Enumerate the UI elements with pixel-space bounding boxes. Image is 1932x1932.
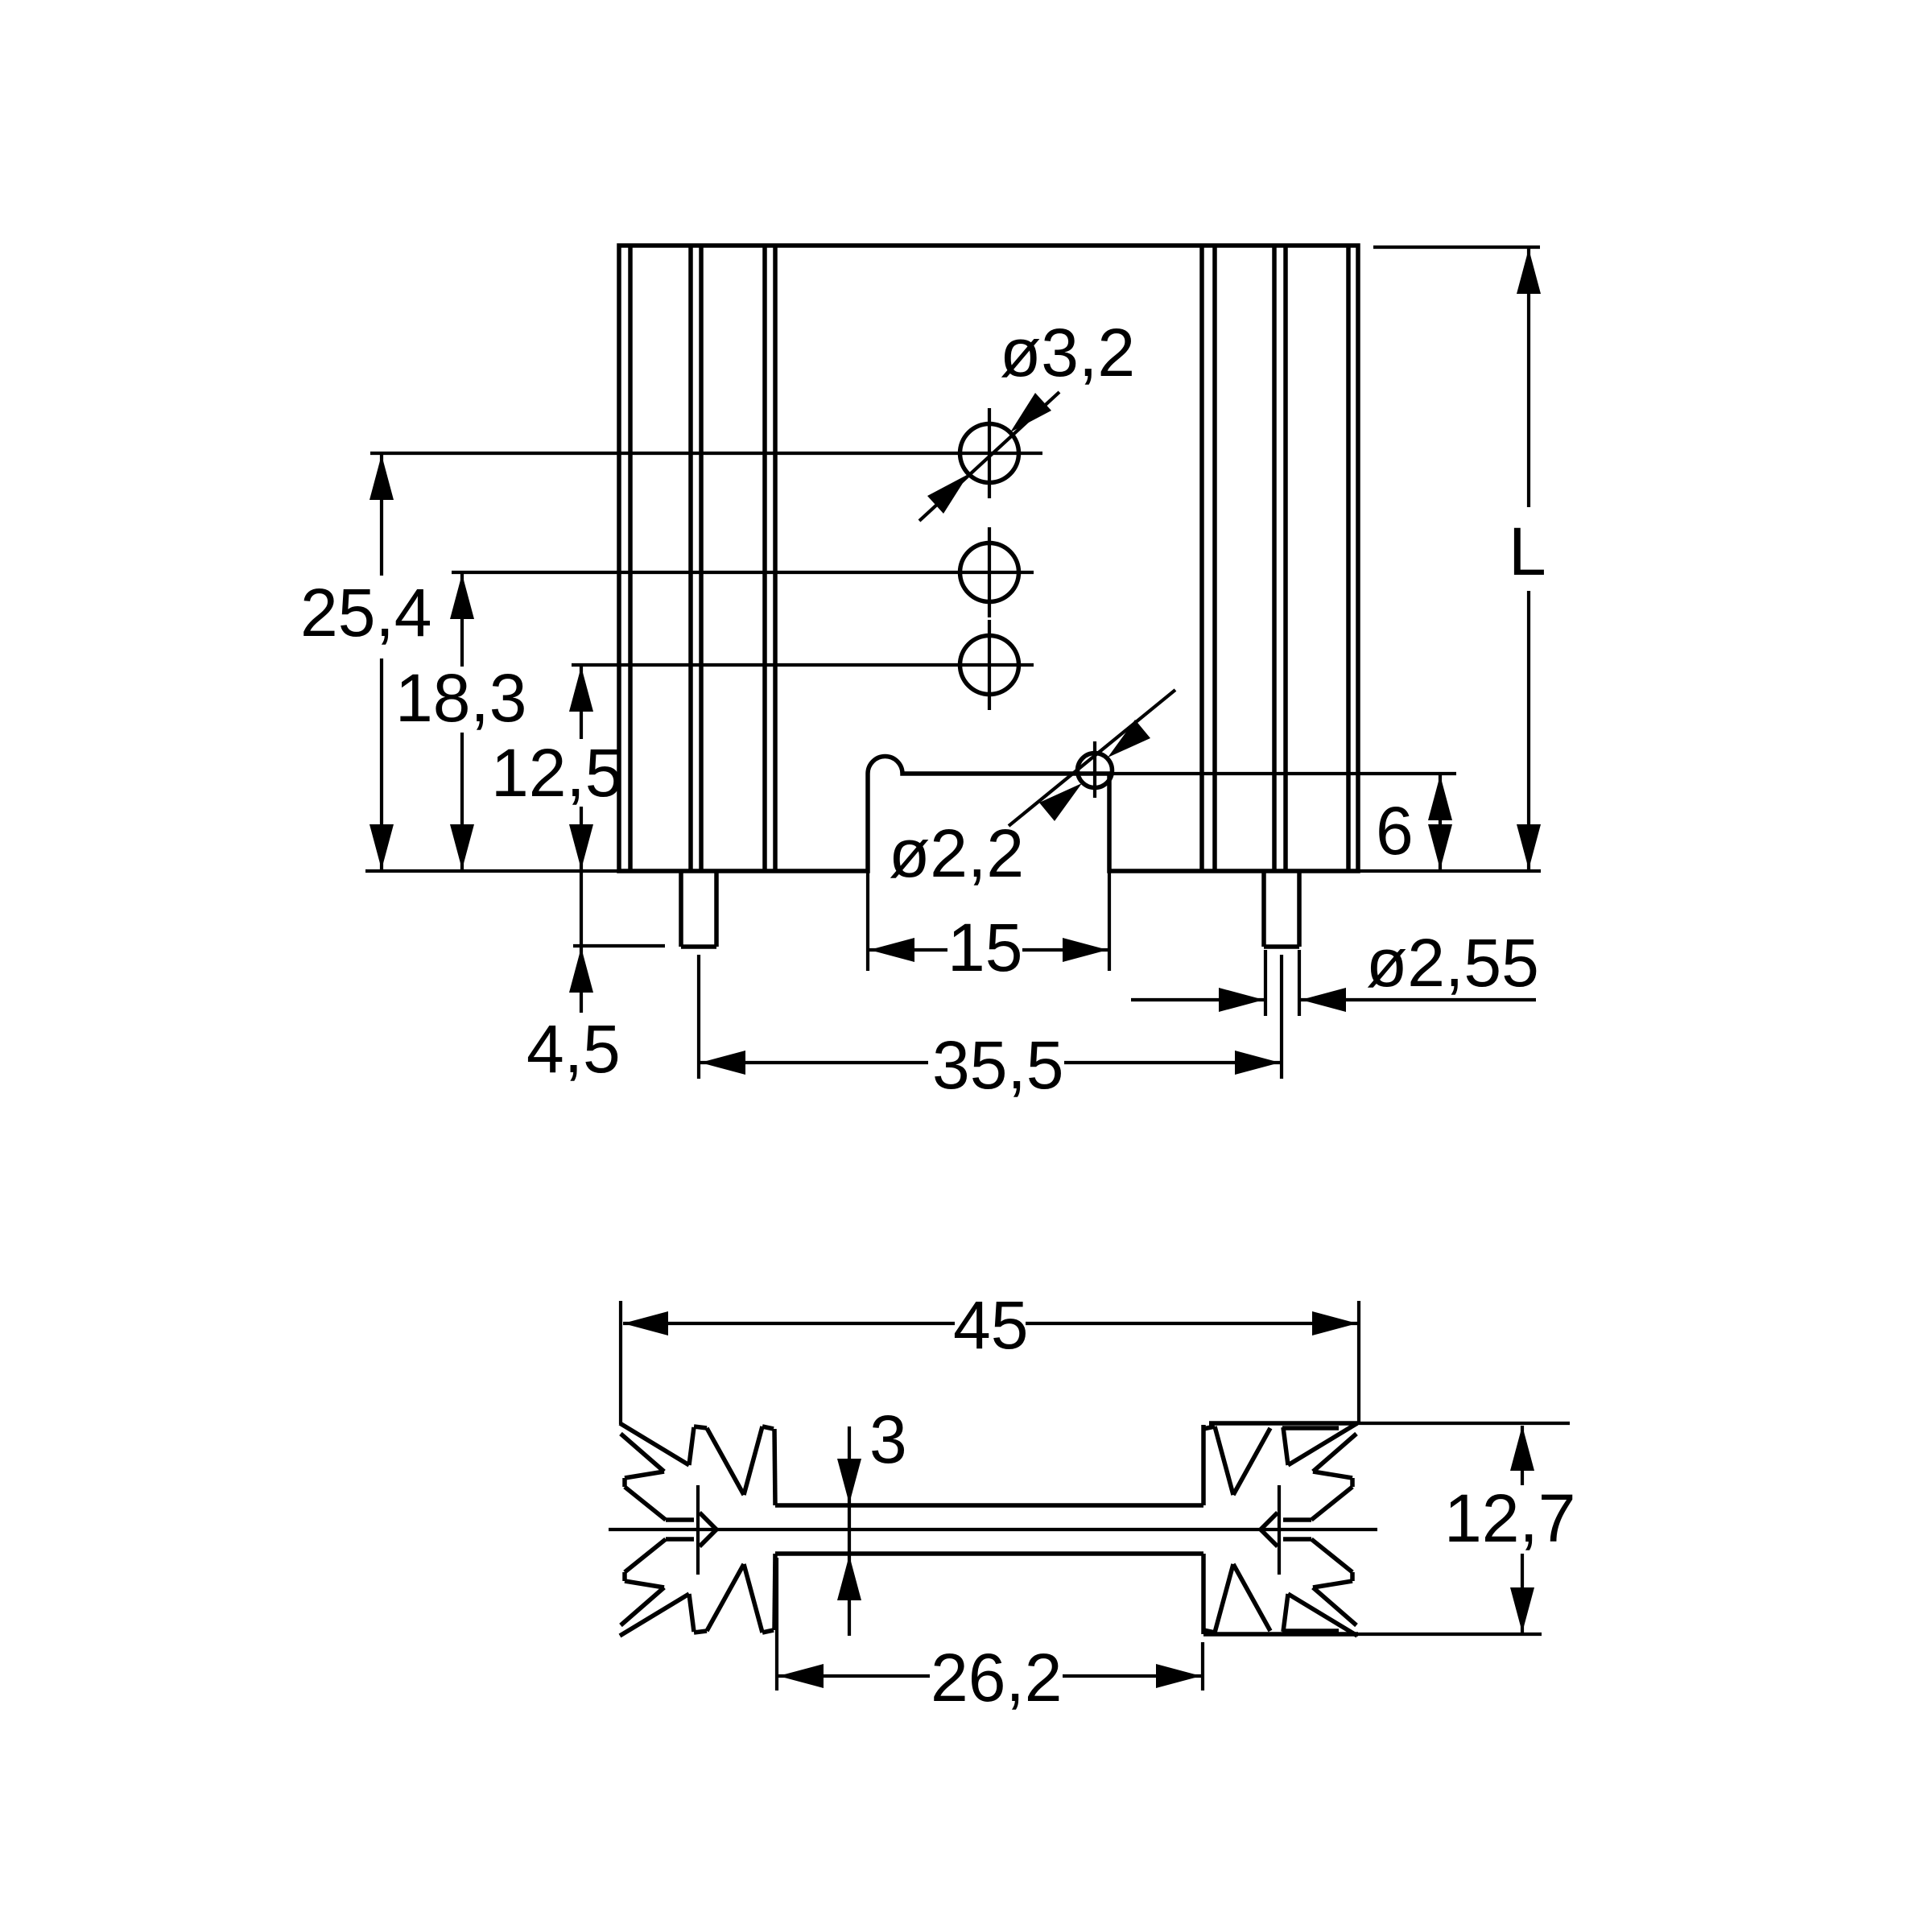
fin extrusion line 1 [628,246,633,871]
bottom extension line left [365,869,619,873]
L top extension line [1373,246,1540,249]
left cluster hub pointer [700,1513,716,1529]
fin extrusion line 5 [773,246,778,871]
dimension 26,2 line [778,1674,930,1678]
pin 1 (solder tab) [679,871,683,947]
svg-text:35,5: 35,5 [932,1027,1064,1103]
dimension 18,3 line [460,572,464,667]
svg-text:6: 6 [1376,793,1414,869]
extension line hole2 / 18,3 [452,571,1034,574]
ø2,2 leader line [1009,690,1175,826]
left fin cluster top half [620,1423,689,1465]
ø3,2 leader line [919,392,1059,521]
fin extrusion line 8 [1272,246,1277,871]
bottom extension line right (L) [1358,869,1541,873]
pin 2 (solder tab) [1261,871,1266,947]
svg-text:12,7: 12,7 [1444,1480,1576,1556]
dimension 3 line [848,1426,851,1636]
extension line hole1 / 25,4 [370,452,1042,455]
fin extrusion line 9 [1283,246,1288,871]
svg-text:26,2: 26,2 [931,1640,1063,1715]
dimension 25,4 line [380,453,383,576]
dimension 12,5 / 4,5 line [580,665,583,739]
dimension 45 line [623,1322,955,1325]
svg-text:15: 15 [947,910,1022,985]
svg-text:18,3: 18,3 [395,660,527,736]
dimension ø2,55 line [1131,998,1264,1001]
45 extension line right [1357,1301,1360,1424]
svg-text:3: 3 [869,1402,907,1477]
pin 1 bottom extension line [573,944,665,947]
left cluster hub crosshair [696,1485,700,1575]
hole ø2,2 circle on notch edge [1078,753,1113,788]
extension line hole3 / 12,5 [572,663,1034,667]
profile top edge + 12,7 top extension [1209,1421,1358,1426]
dimension 6 line [1439,775,1442,869]
hole 1 centerline vertical [988,408,991,498]
dimension 35,5 line [700,1061,928,1064]
svg-text:4,5: 4,5 [526,1011,621,1087]
svg-text:L: L [1509,514,1546,589]
mounting hole 1 (ø3,2) [960,424,1019,483]
profile bottom edge + 12,7 bottom extension [1203,1632,1358,1637]
svg-text:25,4: 25,4 [300,575,432,650]
svg-text:ø2,55: ø2,55 [1366,925,1539,1001]
fin extrusion line 4 [762,246,767,871]
extension lines pin centers (35,5) [697,955,700,1079]
fin extrusion line 2 [688,246,693,871]
hole 3 centerline vertical [988,620,991,710]
26,2 extension line left [775,1558,778,1690]
fin extrusion line 3 [699,246,704,871]
fin extrusion line 10 [1346,246,1351,871]
dimension 12,7 line [1521,1426,1524,1485]
notch left edge extension (15) [866,871,869,971]
notch top extension line (6) [1109,772,1456,775]
left fin cluster bottom half [620,1594,689,1636]
fin extrusion line 7 [1212,246,1217,871]
svg-text:ø3,2: ø3,2 [1000,315,1135,390]
hole 2 centerline vertical [988,527,991,617]
dimension 4,5 lower arrow [569,947,593,993]
right cluster hub pointer [1261,1513,1278,1529]
notch right edge extension (15) [1108,871,1111,971]
right cluster hub crosshair [1278,1485,1281,1575]
mounting hole 2 [960,543,1019,602]
svg-text:12,5: 12,5 [491,735,623,811]
ø2,2 centerline tick [1093,741,1096,798]
svg-text:45: 45 [953,1287,1028,1363]
45 extension line left [619,1301,622,1424]
extension lines pin2 edges (ø2,55) [1264,950,1267,1016]
svg-text:ø2,2: ø2,2 [889,815,1024,891]
dimension 15 line [869,948,947,952]
right fin cluster bottom half [1288,1594,1357,1636]
dimension L line [1527,249,1530,507]
right fin cluster top half [1288,1423,1357,1465]
fin extrusion line 6 [1199,246,1204,871]
symmetry axis line [609,1528,1377,1531]
central web top edge [775,1503,1203,1508]
central web bottom edge [775,1551,1203,1556]
heatsink body outline (front view) with bottom notch and bump [619,246,1358,871]
26,2 extension line right [1201,1642,1204,1690]
mounting hole 3 [960,636,1019,695]
